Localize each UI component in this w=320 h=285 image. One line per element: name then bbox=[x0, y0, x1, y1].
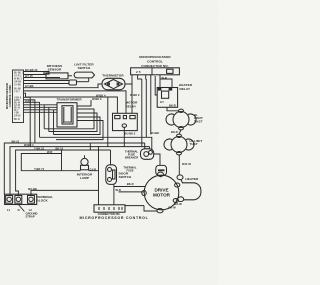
svg-text:Y-BK: Y-BK bbox=[14, 112, 20, 114]
svg-text:24VAC: 24VAC bbox=[63, 120, 72, 124]
svg-text:N: N bbox=[18, 208, 20, 212]
svg-text:BREAKER: BREAKER bbox=[125, 156, 138, 160]
svg-text:BU-BK: BU-BK bbox=[151, 131, 160, 135]
svg-text:W-R: W-R bbox=[47, 150, 52, 154]
svg-text:CONTROL CONN.: CONTROL CONN. bbox=[8, 84, 12, 107]
svg-text:MICROPROCESSOR: MICROPROCESSOR bbox=[139, 55, 171, 59]
svg-text:THERMISTOR: THERMISTOR bbox=[102, 74, 124, 78]
svg-text:GY: GY bbox=[160, 100, 164, 104]
svg-text:L1: L1 bbox=[7, 208, 11, 212]
svg-text:MOTOR: MOTOR bbox=[153, 192, 171, 197]
svg-text:W-BK 2: W-BK 2 bbox=[130, 93, 140, 97]
svg-text:BK-21: BK-21 bbox=[12, 139, 20, 143]
svg-text:SWITCH: SWITCH bbox=[119, 175, 132, 179]
svg-text:BK-W: BK-W bbox=[174, 202, 182, 206]
svg-text:L2: L2 bbox=[29, 208, 33, 212]
svg-text:RELAY: RELAY bbox=[126, 105, 138, 109]
svg-text:THST: THST bbox=[190, 142, 198, 146]
svg-text:SENSOR: SENSOR bbox=[48, 67, 62, 71]
svg-text:W-R: W-R bbox=[116, 188, 121, 192]
svg-text:STRAP: STRAP bbox=[26, 214, 35, 218]
svg-text:THST: THST bbox=[194, 119, 203, 123]
svg-text:GY 15: GY 15 bbox=[25, 74, 33, 78]
svg-text:2 5: 2 5 bbox=[136, 70, 141, 74]
svg-text:Y-BK 71: Y-BK 71 bbox=[34, 167, 45, 171]
svg-text:BU-R: BU-R bbox=[14, 119, 20, 121]
svg-text:W-BK 4: W-BK 4 bbox=[96, 93, 106, 97]
svg-text:BK-R: BK-R bbox=[127, 182, 134, 186]
svg-text:OR-BK: OR-BK bbox=[14, 81, 22, 83]
svg-text:GY-BK: GY-BK bbox=[14, 84, 21, 86]
svg-text:W-BU 4: W-BU 4 bbox=[24, 143, 34, 147]
svg-text:W-BK 3: W-BK 3 bbox=[14, 78, 23, 80]
svg-text:W-BK 2: W-BK 2 bbox=[92, 97, 102, 101]
svg-text:MICROPROCESSOR CONTROL: MICROPROCESSOR CONTROL bbox=[79, 216, 148, 220]
svg-text:TRANSFORMER: TRANSFORMER bbox=[57, 98, 83, 102]
svg-text:BU-BK: BU-BK bbox=[14, 88, 21, 90]
svg-text:BK-R: BK-R bbox=[171, 130, 178, 134]
svg-text:OR-W: OR-W bbox=[14, 116, 21, 118]
svg-text:V-BK 2: V-BK 2 bbox=[25, 99, 34, 103]
svg-text:Y-R 7: Y-R 7 bbox=[14, 91, 20, 93]
svg-text:BU-BK 1: BU-BK 1 bbox=[14, 72, 24, 74]
svg-text:SWITCH: SWITCH bbox=[78, 66, 91, 70]
svg-text:FUSE: FUSE bbox=[126, 169, 133, 173]
svg-text:W-R 10: W-R 10 bbox=[182, 162, 192, 166]
svg-text:BLOCK: BLOCK bbox=[36, 199, 48, 203]
svg-text:Y-BK 21: Y-BK 21 bbox=[34, 146, 45, 150]
svg-text:LAMP: LAMP bbox=[80, 176, 89, 180]
svg-text:BU-BK 23: BU-BK 23 bbox=[25, 68, 38, 72]
svg-text:HEATER: HEATER bbox=[185, 177, 199, 181]
svg-text:RELAY: RELAY bbox=[180, 87, 192, 91]
svg-text:BK 15: BK 15 bbox=[56, 147, 64, 151]
svg-text:BK-R: BK-R bbox=[169, 104, 176, 108]
svg-text:CONTROL: CONTROL bbox=[147, 60, 163, 64]
svg-text:W-R: W-R bbox=[162, 76, 167, 80]
svg-text:BU-BK 2: BU-BK 2 bbox=[124, 132, 135, 136]
svg-text:GY-BK: GY-BK bbox=[25, 84, 34, 88]
svg-text:BK-W: BK-W bbox=[168, 205, 176, 209]
svg-text:GY-R 2: GY-R 2 bbox=[14, 75, 22, 77]
